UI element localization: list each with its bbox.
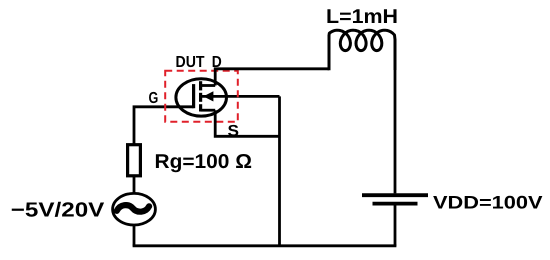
MOSFET DUT channel segment bottom (199, 104, 202, 111)
svg-text:Rg=100 Ω: Rg=100 Ω (155, 151, 253, 173)
battery VDD negative plate (373, 202, 418, 206)
MOSFET DUT channel segment top (199, 81, 202, 90)
wire source: MOSFET source down then right (215, 110, 279, 136)
wire inductor right lead down to battery + (394, 60, 397, 193)
svg-text:G: G (149, 90, 159, 107)
svg-text:DUT: DUT (176, 54, 205, 71)
wire drain: MOSFET drain up and right to inductor (215, 69, 329, 86)
MOSFET DUT body circle (176, 79, 227, 116)
wire gate net: G corner to resistor top (134, 107, 194, 145)
battery VDD positive plate (362, 193, 428, 197)
svg-text:−5V/20V: −5V/20V (11, 199, 105, 221)
voltage source V1 sine symbol (117, 205, 149, 212)
DUT red dashed outline box (165, 71, 238, 122)
MOSFET DUT gate bar (192, 84, 195, 108)
MOSFET DUT body arrow head (203, 91, 213, 101)
svg-text:VDD=100V: VDD=100V (433, 192, 543, 212)
wire source V1 bottom to ground rail (133, 226, 136, 246)
wire battery - down to ground rail (394, 205, 397, 245)
inductor L coil (329, 30, 395, 70)
MOSFET DUT (176, 79, 280, 116)
voltage source V1 (-5V/20V) circle (113, 193, 156, 225)
MOSFET DUT channel segment middle (199, 93, 202, 102)
resistor Rg (128, 145, 141, 176)
svg-text:L=1mH: L=1mH (326, 6, 398, 28)
wire body/source net down to ground rail (278, 96, 281, 245)
MOSFET DUT drain bar (201, 84, 216, 87)
MOSFET DUT source bar (201, 109, 216, 112)
wire resistor bottom to source V1 top (133, 176, 136, 194)
MOSFET DUT body arrow line (201, 95, 280, 98)
wire bottom rail (133, 244, 397, 247)
